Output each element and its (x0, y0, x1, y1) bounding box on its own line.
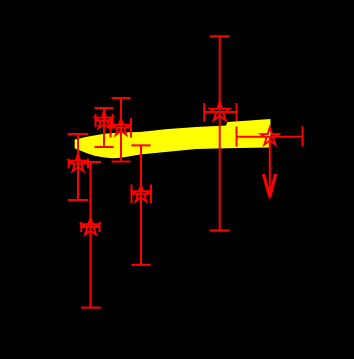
point P4 horizontal error bar (132, 184, 152, 203)
point P5 horizontal error bar (81, 222, 99, 232)
point P6 vertical error bar (210, 36, 230, 230)
point P6 horizontal error bar (204, 103, 236, 122)
point P4 vertical error bar (131, 145, 150, 265)
point P1 vertical error bar (68, 134, 89, 200)
point P3 vertical error bar (112, 98, 131, 162)
point P2 star marker (95, 111, 113, 128)
point P4 star marker (132, 185, 149, 201)
point P5 star marker (82, 218, 99, 235)
point P7 star marker (261, 128, 279, 145)
point P1 star marker (69, 154, 87, 171)
yellow theory band (75, 119, 271, 158)
point P6 star marker (210, 102, 229, 121)
point P7 arrowhead (263, 174, 275, 197)
point P2 horizontal error bar (96, 114, 113, 127)
point P3 horizontal error bar (111, 118, 132, 138)
point P7 upper-limit arrow shaft (269, 137, 271, 199)
point P5 vertical error bar (81, 162, 101, 308)
point P1 horizontal error bar (69, 159, 88, 169)
point P3 star marker (112, 119, 129, 135)
point P2 vertical error bar (95, 108, 114, 147)
point P7 horizontal error bar (237, 127, 303, 147)
